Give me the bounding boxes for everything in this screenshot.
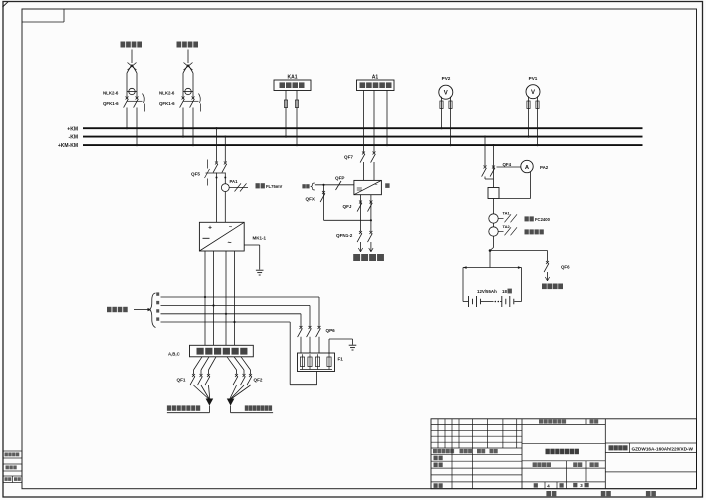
fuse element x=329	[327, 357, 331, 367]
wire charger AC 4	[234, 251, 236, 345]
wire feeder2 right pole to bus	[192, 108, 194, 146]
breaker feeder2 poles	[182, 97, 185, 100]
wire KA1 lead left	[285, 91, 287, 137]
svg-text:QF1: QF1	[177, 377, 186, 382]
fuse element x=310	[308, 357, 312, 367]
value label shunt FL-75mV	[256, 183, 260, 188]
wires box to QF2	[227, 357, 237, 370]
underline input2	[231, 412, 274, 414]
title block vertical main dividers	[521, 419, 523, 489]
note making-drawing	[546, 491, 551, 496]
margin box 3	[3, 476, 22, 483]
label check	[434, 463, 438, 468]
breaker feeder2 tie bar	[183, 100, 199, 102]
fuse PV1 right	[536, 101, 539, 109]
wire charger feed right	[224, 137, 226, 162]
label right of inverter	[385, 183, 389, 188]
wire charger AC 1	[204, 251, 206, 345]
sheets row	[522, 481, 605, 483]
wire stub feeder1	[131, 50, 133, 64]
battery cell group 2	[500, 301, 502, 303]
svg-text:FC2400: FC2400	[535, 217, 551, 222]
svg-text:QFN1-2: QFN1-2	[336, 233, 353, 238]
value label sensor1	[525, 216, 529, 221]
bus -KM	[83, 136, 643, 138]
wire AC line1 drop	[318, 297, 320, 327]
arrow input1	[206, 399, 214, 406]
wire KA1 lead right	[296, 91, 298, 146]
svg-text:-KM: -KM	[69, 135, 78, 141]
bus +KM-KM	[83, 144, 643, 146]
ground PE	[349, 344, 357, 346]
network code cell	[522, 423, 605, 425]
fuse feeder1	[127, 65, 132, 74]
wire A1 lead 1	[363, 91, 365, 153]
relay KA1 box	[274, 80, 311, 91]
product type row	[605, 442, 696, 444]
revision table rows	[431, 424, 522, 426]
wires to inverter output arrows	[360, 242, 362, 252]
svg-text:GZDW16A-160Ah/220/XD-W: GZDW16A-160Ah/220/XD-W	[632, 447, 694, 452]
fuse PV1 left	[527, 101, 530, 109]
svg-text:~: ~	[375, 183, 378, 188]
breaker feeder1 poles	[126, 97, 129, 100]
underline input1	[167, 412, 210, 414]
svg-text:QF6: QF6	[561, 265, 570, 270]
wire stub feeder2	[187, 50, 189, 64]
fuse PV2 right	[449, 101, 452, 109]
svg-text:QF2: QF2	[254, 377, 263, 382]
wires inverter out	[360, 195, 362, 232]
wire QF4 to shunt	[493, 167, 495, 188]
brace AC lines	[150, 293, 156, 328]
note base-drawing	[601, 491, 606, 496]
revision table columns	[437, 419, 439, 448]
node closing-bus label	[302, 184, 305, 188]
device A1 box	[357, 80, 395, 91]
breaker feeder1 tie bar	[127, 100, 143, 102]
wire feeder2 left pole to bus	[182, 108, 184, 137]
header row text (mark/count/zone/file/sign/date)	[433, 449, 437, 453]
wire neutral drop and L-path	[289, 322, 291, 385]
fuse feeder2	[183, 65, 188, 74]
rectifier module U1 box	[199, 222, 244, 251]
title block outline	[431, 419, 697, 489]
wire charger AC 2	[213, 251, 215, 345]
label discharge test	[542, 284, 547, 290]
svg-text:QFK1-6: QFK1-6	[103, 101, 119, 106]
wire AC phase line 4	[161, 321, 291, 323]
breaker QF5 tie bar	[206, 172, 226, 174]
ammeter loop wires	[530, 172, 532, 199]
wires QF7 to inverter	[363, 162, 365, 180]
svg-text:NLK2-6: NLK2-6	[159, 91, 175, 96]
serial cell	[590, 419, 594, 423]
svg-text:TA2: TA2	[503, 224, 511, 229]
junction battery node	[489, 249, 492, 252]
wire battery feed right	[493, 145, 495, 167]
drawing title DC system configuration	[546, 449, 550, 455]
label inverter output	[353, 254, 360, 261]
value label sensor2	[525, 229, 529, 234]
svg-text:F1: F1	[338, 357, 344, 362]
battery loop top	[463, 267, 522, 269]
wires box to QF1	[194, 357, 203, 370]
svg-text:12V/55Ah: 12V/55Ah	[477, 289, 497, 294]
label design	[434, 456, 438, 461]
breaker QFX symbol	[322, 191, 325, 194]
svg-text:QF5: QF5	[191, 172, 200, 177]
brace closing bus	[311, 183, 315, 190]
svg-text:QF7: QF7	[344, 155, 353, 160]
svg-text:TA1: TA1	[503, 210, 511, 215]
wire AC phase line 3	[161, 313, 302, 315]
label approve	[434, 483, 438, 488]
wire AC line3 drop	[300, 314, 302, 327]
fuse KA1 left	[284, 100, 287, 108]
fuse PV2 left	[440, 101, 443, 109]
svg-text:PA2: PA2	[540, 165, 549, 170]
wire charger feed left	[216, 128, 218, 162]
battery loop sides	[462, 268, 464, 302]
arrow input2	[227, 399, 235, 406]
converge wires input2	[230, 385, 237, 399]
wires QP6 to fuse box	[300, 337, 302, 353]
graphic mark row	[522, 460, 605, 462]
margin box 2	[3, 464, 22, 471]
bus +KM	[83, 127, 643, 129]
battery cell group 1	[463, 301, 468, 303]
svg-text:PA1: PA1	[230, 179, 239, 184]
wire battery feed left	[484, 137, 486, 166]
wire to ground	[244, 244, 260, 246]
wire A1 lead 3	[386, 91, 388, 146]
wire feeder1 left pole to bus	[126, 108, 128, 129]
ammeter feed wire	[497, 166, 521, 168]
wire feeder1 right pole to bus	[136, 108, 138, 146]
wire PV2 left lead	[441, 97, 443, 128]
feeder output label feeder2	[177, 42, 182, 48]
wire AC phase line 2	[161, 305, 311, 307]
svg-text:+KM-KM: +KM-KM	[58, 143, 78, 149]
svg-text:V: V	[531, 90, 535, 96]
wire closing bus to inverter	[315, 184, 354, 186]
junction dots AC lines	[204, 296, 206, 298]
svg-text:NLK2-6: NLK2-6	[103, 91, 119, 96]
label AC input 2	[245, 405, 249, 410]
fuse KA1 right	[295, 100, 298, 108]
svg-text:A,B,C: A,B,C	[168, 351, 180, 356]
svg-text:PV2: PV2	[442, 76, 451, 81]
ground symbol charger	[256, 269, 264, 271]
breaker QFP symbol	[336, 181, 342, 190]
voltmeter PV2	[439, 85, 453, 99]
phase letter marks	[156, 292, 159, 295]
fuse element x=317.5	[315, 357, 319, 367]
svg-text:QF4: QF4	[503, 162, 512, 167]
corner box top-left	[22, 21, 64, 23]
arrow feeder1	[128, 63, 137, 71]
wire PV2 right lead	[450, 97, 452, 145]
label AC input 1	[167, 405, 171, 410]
label to distribution	[107, 307, 112, 312]
wire shunt to sensors	[493, 199, 495, 214]
inverter box	[354, 180, 382, 194]
wire TA1-TA2	[493, 223, 495, 227]
svg-text:18: 18	[502, 289, 507, 294]
svg-text:MK1-1: MK1-1	[253, 235, 267, 240]
wire charger AC 3	[225, 251, 227, 345]
wire junction down to battery	[489, 251, 491, 268]
wire PV1 right lead	[537, 96, 539, 145]
svg-text:QP6: QP6	[326, 328, 336, 333]
breaker QF5 aux pole	[207, 160, 209, 169]
wire PV1 left lead	[528, 96, 530, 136]
junction QFX tap	[322, 184, 324, 186]
svg-text:V: V	[444, 90, 448, 96]
feeder output label feeder1	[121, 42, 126, 48]
wire QFX vertical	[323, 185, 325, 221]
wire QF5 to charger box	[216, 173, 218, 223]
note trace-drawing	[646, 491, 651, 496]
svg-text:QFJ: QFJ	[343, 204, 352, 209]
wire QF5 to shunt PA1	[224, 173, 226, 184]
fuse element x=302.5	[300, 357, 304, 367]
svg-text:~: ~	[229, 225, 232, 231]
wire A1 lead 2	[373, 91, 375, 153]
svg-text:~: ~	[227, 240, 231, 247]
wire PE link	[328, 339, 330, 354]
shunt block battery	[488, 188, 499, 199]
wire AC line2 drop	[309, 306, 311, 328]
wire AC phase line 1	[161, 296, 320, 298]
svg-text:QFX: QFX	[306, 196, 316, 201]
fuse common bar	[300, 369, 332, 371]
svg-text:QFK1-6: QFK1-6	[159, 101, 175, 106]
signature rows	[431, 453, 522, 455]
svg-text:+: +	[208, 224, 212, 231]
svg-text:PV1: PV1	[529, 76, 538, 81]
arrow feeder2	[184, 63, 193, 71]
svg-text:FL75mV: FL75mV	[266, 184, 282, 189]
svg-text:QFP: QFP	[335, 175, 344, 180]
fuse box F1	[298, 353, 335, 372]
margin box 1	[3, 451, 22, 458]
shunt symbol PA1	[229, 186, 248, 188]
wire junction to discharge branch	[490, 250, 548, 252]
battery dots	[495, 301, 497, 303]
wire bypass horizontal	[324, 219, 371, 221]
converge wires input1	[194, 385, 209, 399]
wire to junction	[493, 236, 495, 247]
voltmeter PV1	[526, 85, 540, 99]
breaker QFJ symbols	[359, 201, 362, 204]
battery loop corner arrows	[463, 266, 467, 269]
svg-text:+KM: +KM	[67, 126, 78, 132]
